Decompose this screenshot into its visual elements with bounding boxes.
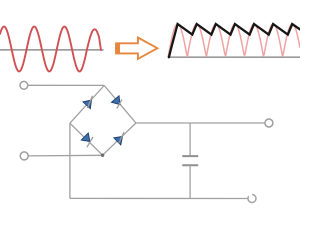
input sine waveform	[0, 27, 101, 72]
arrow (input to output)	[115, 38, 157, 59]
terminal OUT- (bottom-right)	[248, 195, 256, 203]
terminal OUT+ (top-right)	[265, 119, 273, 127]
capacitor C1 top lead	[189, 123, 191, 156]
diode D4 (bottom-right)	[114, 132, 124, 145]
capacitor C1 bottom lead	[189, 165, 191, 198]
node junction at bridge bottom	[101, 154, 104, 157]
wire bridge right corner to output	[136, 122, 265, 124]
terminal IN2 (bottom-left)	[20, 152, 28, 160]
wire IN2 to bridge bottom	[28, 154, 102, 157]
rectified sine (pink)	[168, 24, 300, 57]
wire bridge left corner down	[69, 123, 71, 198]
diode D2 (top-right)	[111, 96, 121, 109]
wire IN1 to bridge top	[28, 84, 104, 86]
input sine axis	[0, 49, 104, 51]
output baseline	[168, 56, 300, 58]
diode D1 (top-left)	[83, 96, 93, 109]
terminal IN1 (top-left)	[20, 81, 28, 89]
diode D3 (bottom-left)	[81, 133, 93, 147]
smoothed ripple waveform (black)	[169, 24, 300, 57]
wire bottom rail	[70, 197, 248, 199]
capacitor C1 plates	[182, 155, 198, 157]
bridge diamond wires	[70, 86, 136, 156]
